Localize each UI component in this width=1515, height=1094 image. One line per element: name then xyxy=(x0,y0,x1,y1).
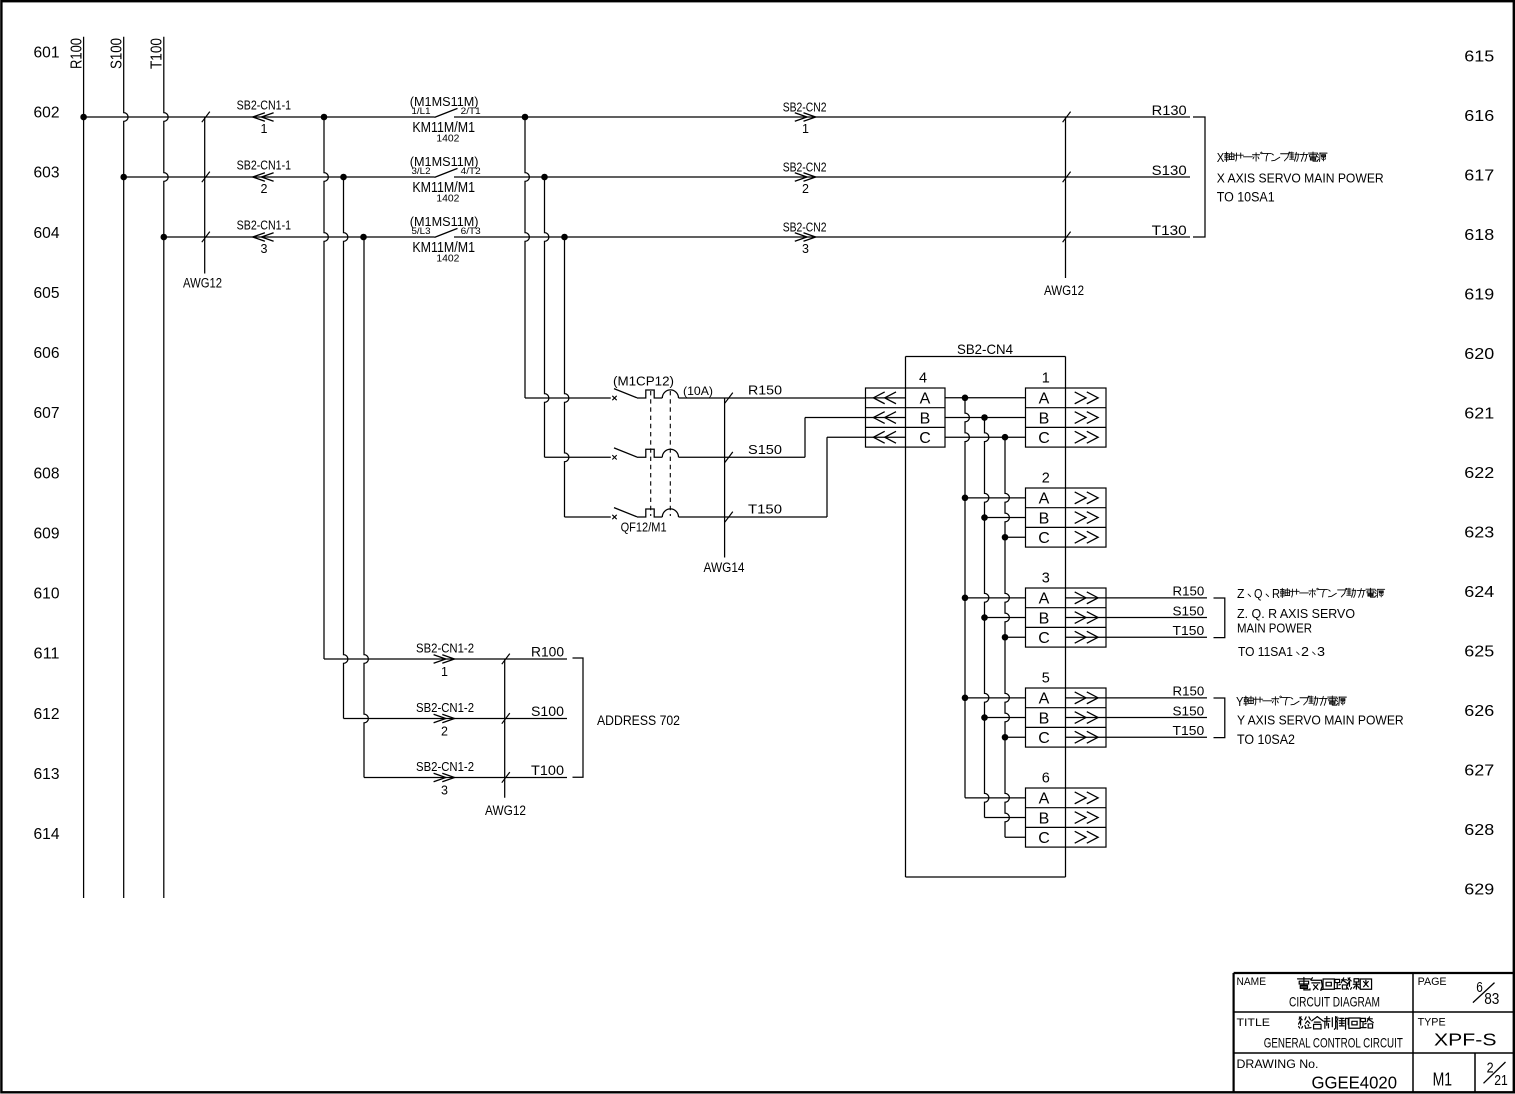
net label T100 xyxy=(531,763,564,778)
net label T150 (group 5) xyxy=(1173,724,1205,738)
svg-text:S100: S100 xyxy=(109,38,126,69)
svg-text:T150: T150 xyxy=(1173,624,1205,638)
bus R100 vertical xyxy=(83,37,85,898)
svg-text:SB2-CN1-1: SB2-CN1-1 xyxy=(237,98,292,113)
note X axis servo main power (Japanese) xyxy=(1217,150,1327,165)
sheet number 2/21 xyxy=(1484,1061,1508,1089)
wire S150 riser to SB2-CN4 B xyxy=(805,418,866,458)
svg-text:617: 617 xyxy=(1464,167,1494,184)
svg-text:622: 622 xyxy=(1464,465,1494,482)
svg-text:AWG12: AWG12 xyxy=(183,276,222,291)
title field NAME xyxy=(1237,976,1267,988)
connector label SB2-CN4 xyxy=(957,341,1013,357)
svg-text:1402: 1402 xyxy=(436,193,459,205)
note MAIN POWER xyxy=(1237,621,1312,635)
cable AWG12 marker (bottom) xyxy=(485,659,526,818)
svg-text:B: B xyxy=(1039,510,1050,527)
svg-text:MAIN POWER: MAIN POWER xyxy=(1237,621,1312,635)
connector SB2-CN1-2 pin 3 xyxy=(416,759,474,798)
svg-text:XPF-S: XPF-S xyxy=(1434,1030,1497,1050)
junction T130 at bus xyxy=(161,234,168,241)
svg-text:B: B xyxy=(1039,610,1050,627)
net label T150 (group 3) xyxy=(1173,624,1205,638)
svg-text:C: C xyxy=(919,430,931,447)
bracket R100-T100 address 702 xyxy=(573,658,584,777)
wire row T130: bus to contactor xyxy=(164,236,435,238)
svg-text:T130: T130 xyxy=(1152,222,1187,238)
net label S100 xyxy=(531,704,564,719)
svg-text:21: 21 xyxy=(1494,1073,1508,1089)
svg-text:R130: R130 xyxy=(1152,102,1187,118)
svg-text:609: 609 xyxy=(34,525,60,542)
svg-text:2: 2 xyxy=(261,182,268,196)
svg-text:3: 3 xyxy=(261,242,268,256)
svg-text:AWG12: AWG12 xyxy=(1044,283,1084,298)
svg-text:TYPE: TYPE xyxy=(1418,1016,1446,1028)
svg-text:C: C xyxy=(1038,430,1050,447)
svg-text:S150: S150 xyxy=(748,442,782,457)
wire bus A to group 2 A xyxy=(962,495,1026,502)
svg-text:TITLE: TITLE xyxy=(1237,1017,1271,1029)
cable tick AWG12 on row T100 xyxy=(502,772,510,783)
svg-text:2: 2 xyxy=(1301,645,1309,659)
svg-text:4: 4 xyxy=(919,371,927,387)
wire bus C to group 3 C xyxy=(1002,634,1026,641)
net label R130 xyxy=(1152,102,1187,118)
wire SB2-CN4 4A to 1A xyxy=(945,397,1026,399)
svg-text:NAME: NAME xyxy=(1237,976,1267,988)
bracket R130-T130 to 10SA1 xyxy=(1193,117,1205,237)
bus label R100 xyxy=(68,38,85,69)
bus T100 vertical xyxy=(164,37,168,898)
svg-text:B: B xyxy=(1039,410,1050,427)
svg-text:C: C xyxy=(1038,530,1050,547)
contactor KM11M/M1 contact 5/L3-6/T3 xyxy=(410,214,481,265)
connector SB2-CN4 group 3 table xyxy=(1026,571,1208,648)
svg-text:1: 1 xyxy=(1042,371,1050,387)
wire row S130: bus to contactor xyxy=(124,176,435,178)
svg-text:C: C xyxy=(1038,630,1050,647)
svg-text:R150: R150 xyxy=(1173,685,1205,699)
svg-text:626: 626 xyxy=(1464,703,1494,720)
svg-text:SB2-CN1-2: SB2-CN1-2 xyxy=(416,700,474,715)
junction R130 at bus xyxy=(80,114,87,121)
svg-text:615: 615 xyxy=(1464,48,1494,65)
wire drop S net x=343.5 xyxy=(344,177,348,719)
svg-text:A: A xyxy=(1039,691,1050,708)
svg-text:SB2-CN1-2: SB2-CN1-2 xyxy=(416,759,474,774)
wire row R100 to address 702 xyxy=(324,658,567,660)
title text CIRCUIT DIAGRAM (Japanese) xyxy=(1298,977,1372,990)
cable AWG14 marker xyxy=(704,393,745,575)
bracket group 3 to 11SA1-3 xyxy=(1214,598,1225,638)
svg-text:624: 624 xyxy=(1464,584,1494,601)
svg-text:3: 3 xyxy=(441,784,448,798)
wire row T100 to address 702 xyxy=(364,777,567,779)
svg-text:604: 604 xyxy=(34,225,60,242)
svg-text:Z. Q. R AXIS SERVO: Z. Q. R AXIS SERVO xyxy=(1237,607,1355,621)
svg-text:(M1MS11M): (M1MS11M) xyxy=(410,94,479,109)
cable tick AWG12 on row S100 xyxy=(502,713,510,724)
line numbers 601-614 (left margin) xyxy=(34,44,60,843)
wire row T130: contactor to T130 xyxy=(454,236,1190,238)
wire bus C to group 6 C xyxy=(1005,836,1026,838)
wire bus B to group 2 B xyxy=(981,514,1025,521)
wire SB2-CN4 4C to 1C xyxy=(945,436,1026,438)
connector SB2-CN1-2 pin 1 xyxy=(416,640,474,679)
svg-text:R: R xyxy=(1272,587,1280,601)
bus S100 vertical xyxy=(124,37,128,898)
junction node C x=1005 xyxy=(1002,434,1009,441)
svg-text:T150: T150 xyxy=(1173,724,1205,738)
svg-text:627: 627 xyxy=(1464,762,1494,779)
svg-text:A: A xyxy=(1039,391,1050,408)
svg-text:SB2-CN2: SB2-CN2 xyxy=(783,159,827,174)
svg-text:R100: R100 xyxy=(68,38,85,69)
contactor KM11M/M1 contact 3/L2-4/T2 xyxy=(410,154,481,205)
net label R150 xyxy=(748,383,782,398)
connector SB2-CN1-1 pin 1 xyxy=(237,98,292,136)
wire distribution bus A x=965 xyxy=(965,398,969,798)
svg-text:AWG12: AWG12 xyxy=(485,803,526,818)
svg-text:A: A xyxy=(1039,591,1050,608)
title field TITLE xyxy=(1237,1017,1271,1029)
svg-text:621: 621 xyxy=(1464,405,1494,422)
svg-text:A: A xyxy=(1039,491,1050,508)
wire bus A to group 3 A xyxy=(962,595,1026,602)
svg-text:GENERAL CONTROL CIRCUIT: GENERAL CONTROL CIRCUIT xyxy=(1264,1035,1403,1051)
connector SB2-CN1-1 pin 2 xyxy=(237,158,292,196)
net label S130 xyxy=(1152,162,1187,178)
contactor KM11M/M1 contact 1/L1-2/T1 xyxy=(410,94,481,145)
svg-text:T150: T150 xyxy=(748,502,782,517)
svg-text:B: B xyxy=(1039,810,1050,827)
svg-text:R150: R150 xyxy=(1173,585,1205,599)
wire T150 riser to SB2-CN4 C xyxy=(827,437,866,517)
svg-text:C: C xyxy=(1038,830,1050,847)
svg-text:612: 612 xyxy=(34,706,60,723)
cable tick AWG12 on row S130 xyxy=(202,172,210,183)
bracket group 5 to 10SA2 xyxy=(1214,698,1225,738)
svg-text:618: 618 xyxy=(1464,227,1494,244)
wire row R130: contactor to R130 xyxy=(454,116,1190,118)
wire bus A to group 6 A xyxy=(965,797,1026,799)
svg-text:B: B xyxy=(1039,710,1050,727)
junction row S130 drop to breaker xyxy=(541,174,548,181)
connector SB2-CN2 pin 1 xyxy=(783,99,827,136)
svg-text:608: 608 xyxy=(34,465,60,482)
svg-text:3: 3 xyxy=(1042,571,1050,587)
breaker QF12/M1 R150 pole xyxy=(525,389,679,401)
svg-text:Z: Z xyxy=(1237,587,1245,601)
wire S150 breaker to riser xyxy=(679,456,806,458)
svg-text:B: B xyxy=(920,410,931,427)
svg-text:SB2-CN2: SB2-CN2 xyxy=(783,219,827,234)
wire bus B to group 5 B xyxy=(981,714,1025,721)
connector SB2-CN4 group 2 table xyxy=(1026,471,1107,548)
svg-text:T100: T100 xyxy=(149,38,166,69)
wire row S100 to address 702 xyxy=(344,718,568,720)
note TO 10SA1 xyxy=(1217,189,1275,204)
svg-text:2: 2 xyxy=(441,725,448,739)
cable tick AWG12 on row R130 xyxy=(202,112,210,123)
svg-text:620: 620 xyxy=(1464,346,1494,363)
wire row S130: contactor to S130 xyxy=(454,176,1190,178)
svg-text:TO 11SA1: TO 11SA1 xyxy=(1238,645,1293,659)
svg-text:610: 610 xyxy=(34,586,60,603)
svg-text:5: 5 xyxy=(1042,671,1050,687)
svg-text:S150: S150 xyxy=(1173,704,1205,718)
svg-text:S100: S100 xyxy=(531,704,564,719)
svg-text:GGEE4020: GGEE4020 xyxy=(1312,1073,1398,1093)
svg-text:629: 629 xyxy=(1464,881,1494,898)
svg-text:SB2-CN2: SB2-CN2 xyxy=(783,99,827,114)
svg-text:83: 83 xyxy=(1484,991,1499,1008)
svg-text:SB2-CN1-2: SB2-CN1-2 xyxy=(416,640,474,655)
wire drop T net x=364 xyxy=(364,237,368,778)
title text CIRCUIT DIAGRAM xyxy=(1289,994,1380,1010)
svg-text:1402: 1402 xyxy=(436,253,459,265)
wire distribution bus B x=984.5 xyxy=(985,418,989,818)
svg-text:X AXIS SERVO MAIN POWER: X AXIS SERVO MAIN POWER xyxy=(1217,171,1384,185)
svg-text:S130: S130 xyxy=(1152,162,1187,178)
connector SB2-CN4 group 5 table xyxy=(1026,671,1208,748)
svg-text:CIRCUIT DIAGRAM: CIRCUIT DIAGRAM xyxy=(1289,994,1380,1010)
svg-text:AWG14: AWG14 xyxy=(704,560,745,575)
svg-text:6: 6 xyxy=(1042,771,1050,787)
net label S150 (group 3) xyxy=(1173,604,1205,618)
svg-text:605: 605 xyxy=(34,285,60,302)
page number 6/83 xyxy=(1473,980,1499,1008)
svg-text:X: X xyxy=(1217,150,1225,165)
svg-text:SB2-CN4: SB2-CN4 xyxy=(957,341,1013,357)
svg-text:1: 1 xyxy=(261,122,268,136)
net label R100 xyxy=(531,645,564,660)
connector SB2-CN2 pin 3 xyxy=(783,219,827,256)
cable tick AWG12 on row S130 (right) xyxy=(1063,172,1071,183)
wire drop R to breaker x=525 xyxy=(525,117,529,398)
svg-text:628: 628 xyxy=(1464,822,1494,839)
net label T150 xyxy=(748,502,782,517)
svg-text:603: 603 xyxy=(34,165,60,182)
cable tick AWG12 on row R100 xyxy=(502,654,510,665)
wire R150 breaker to SB2-CN4 xyxy=(679,397,866,399)
svg-text:Q: Q xyxy=(1254,587,1263,601)
junction row T130 x=324 drop xyxy=(360,234,367,241)
svg-text:616: 616 xyxy=(1464,108,1494,125)
junction node B x=984.5 xyxy=(981,414,988,421)
svg-text:Y: Y xyxy=(1236,694,1244,709)
wire bus A to group 5 A xyxy=(962,695,1026,702)
svg-text:PAGE: PAGE xyxy=(1418,976,1447,988)
note TO 10SA2 xyxy=(1237,732,1295,747)
breaker designator QF12/M1 xyxy=(621,521,667,535)
svg-text:3: 3 xyxy=(802,242,809,256)
svg-text:ADDRESS 702: ADDRESS 702 xyxy=(597,713,680,728)
net label R150 (group 3) xyxy=(1173,585,1205,599)
bus label T100 xyxy=(149,38,166,69)
svg-text:SB2-CN1-1: SB2-CN1-1 xyxy=(237,158,292,173)
breaker QF12/M1 S150 pole xyxy=(545,448,679,460)
connector SB2-CN1-1 pin 3 xyxy=(237,218,292,256)
cable tick AWG12 on row R130 (right) xyxy=(1063,112,1071,123)
title field DRAWING No. xyxy=(1237,1057,1319,1071)
cable AWG12 marker (right) xyxy=(1044,117,1084,298)
bus label S100 xyxy=(109,38,126,69)
svg-text:R150: R150 xyxy=(748,383,782,398)
title block grid xyxy=(1234,973,1513,1092)
cable tick AWG12 on row T130 xyxy=(202,232,210,243)
net label T130 xyxy=(1152,222,1187,238)
svg-text:(M1MS11M): (M1MS11M) xyxy=(410,214,479,229)
svg-text:1: 1 xyxy=(802,122,809,136)
wire drop T to breaker x=564.5 xyxy=(565,237,569,517)
connector SB2-CN1-2 pin 2 xyxy=(416,700,474,739)
svg-text:(M1MS11M): (M1MS11M) xyxy=(410,154,479,169)
note TO 11SA1, 2, 3 xyxy=(1238,645,1325,659)
svg-text:T100: T100 xyxy=(531,763,564,778)
svg-text:QF12/M1: QF12/M1 xyxy=(621,521,667,535)
svg-text:607: 607 xyxy=(34,405,60,422)
note ADDRESS 702 xyxy=(597,713,680,728)
svg-text:613: 613 xyxy=(34,766,60,783)
junction row T130 drop to breaker xyxy=(561,234,568,241)
note Y axis servo power (Japanese) xyxy=(1236,694,1346,709)
svg-text:(M1CP12): (M1CP12) xyxy=(613,375,674,389)
svg-text:TO 10SA1: TO 10SA1 xyxy=(1217,189,1275,204)
wire bus C to group 2 C xyxy=(1002,534,1026,541)
junction S130 at bus xyxy=(120,174,127,181)
junction row R130 x=324 drop xyxy=(321,114,328,121)
breaker mechanical linkage (dashed) xyxy=(651,391,671,516)
connector SB2-CN4 group 6 table xyxy=(1026,771,1107,848)
sheet M1 xyxy=(1433,1070,1453,1090)
svg-text:M1: M1 xyxy=(1433,1070,1453,1090)
wire bus B to group 3 B xyxy=(981,614,1025,621)
net label S150 (group 5) xyxy=(1173,704,1205,718)
svg-text:614: 614 xyxy=(34,826,60,843)
title text GENERAL CONTROL CIRCUIT xyxy=(1264,1035,1403,1051)
drawing number GGEE4020 xyxy=(1312,1073,1398,1093)
svg-text:3: 3 xyxy=(1317,645,1325,659)
line numbers 615-629 (right margin) xyxy=(1464,48,1494,898)
wire row R130: bus to contactor xyxy=(84,116,435,118)
wire SB2-CN4 4B to 1B xyxy=(945,417,1026,419)
svg-text:DRAWING No.: DRAWING No. xyxy=(1237,1057,1319,1071)
junction row S130 x=324 drop xyxy=(340,174,347,181)
wire bus B to group 6 B xyxy=(985,817,1026,819)
junction row R130 drop to breaker xyxy=(522,114,529,121)
cable tick AWG12 on row T130 (right) xyxy=(1063,232,1071,243)
wire distribution bus C x=1005 xyxy=(1005,437,1009,837)
svg-text:TO 10SA2: TO 10SA2 xyxy=(1237,732,1295,747)
wire drop R net x=324 xyxy=(324,117,328,659)
breaker label (M1CP12) xyxy=(613,375,674,389)
svg-text:A: A xyxy=(1039,791,1050,808)
svg-text:625: 625 xyxy=(1464,643,1494,660)
svg-text:602: 602 xyxy=(34,105,60,122)
svg-text:606: 606 xyxy=(34,345,60,362)
note X AXIS SERVO MAIN POWER xyxy=(1217,171,1384,185)
svg-text:SB2-CN1-1: SB2-CN1-1 xyxy=(237,218,292,233)
cable AWG12 marker (left) xyxy=(183,117,222,291)
svg-text:601: 601 xyxy=(34,44,60,61)
title field PAGE xyxy=(1418,976,1447,988)
svg-text:1: 1 xyxy=(441,665,448,679)
svg-text:619: 619 xyxy=(1464,286,1494,303)
type XPF-S xyxy=(1434,1030,1497,1050)
junction node A x=965 xyxy=(962,395,969,402)
wire bus C to group 5 C xyxy=(1002,734,1026,741)
net label R150 (group 5) xyxy=(1173,685,1205,699)
note Z Q R axis servo power (Japanese) xyxy=(1237,587,1385,601)
svg-text:R100: R100 xyxy=(531,645,564,660)
svg-text:2: 2 xyxy=(802,182,809,196)
svg-text:C: C xyxy=(1038,730,1050,747)
breaker rating (10A) xyxy=(683,384,713,398)
connector SB2-CN4 group 4 table xyxy=(866,371,946,448)
net label S150 xyxy=(748,442,782,457)
connector block SB2-CN4 outline xyxy=(906,357,1066,878)
svg-text:Y AXIS SERVO MAIN POWER: Y AXIS SERVO MAIN POWER xyxy=(1237,714,1404,728)
wire drop S to breaker x=544.5 xyxy=(545,177,549,457)
svg-text:2: 2 xyxy=(1042,471,1050,487)
connector SB2-CN4 group 1 table xyxy=(1026,371,1107,448)
connector SB2-CN2 pin 2 xyxy=(783,159,827,196)
svg-text:611: 611 xyxy=(34,646,60,663)
svg-text:(10A): (10A) xyxy=(683,384,713,398)
note Z. Q. R AXIS SERVO xyxy=(1237,607,1355,621)
breaker QF12/M1 T150 pole xyxy=(565,508,679,520)
svg-text:S150: S150 xyxy=(1173,604,1205,618)
svg-text:1402: 1402 xyxy=(436,133,459,145)
title text GENERAL CONTROL CIRCUIT (Japanese) xyxy=(1299,1017,1374,1030)
wire T150 breaker to riser xyxy=(679,516,828,518)
title field TYPE xyxy=(1418,1016,1446,1028)
svg-text:623: 623 xyxy=(1464,524,1494,541)
note Y AXIS SERVO MAIN POWER xyxy=(1237,714,1404,728)
svg-text:A: A xyxy=(920,391,931,408)
